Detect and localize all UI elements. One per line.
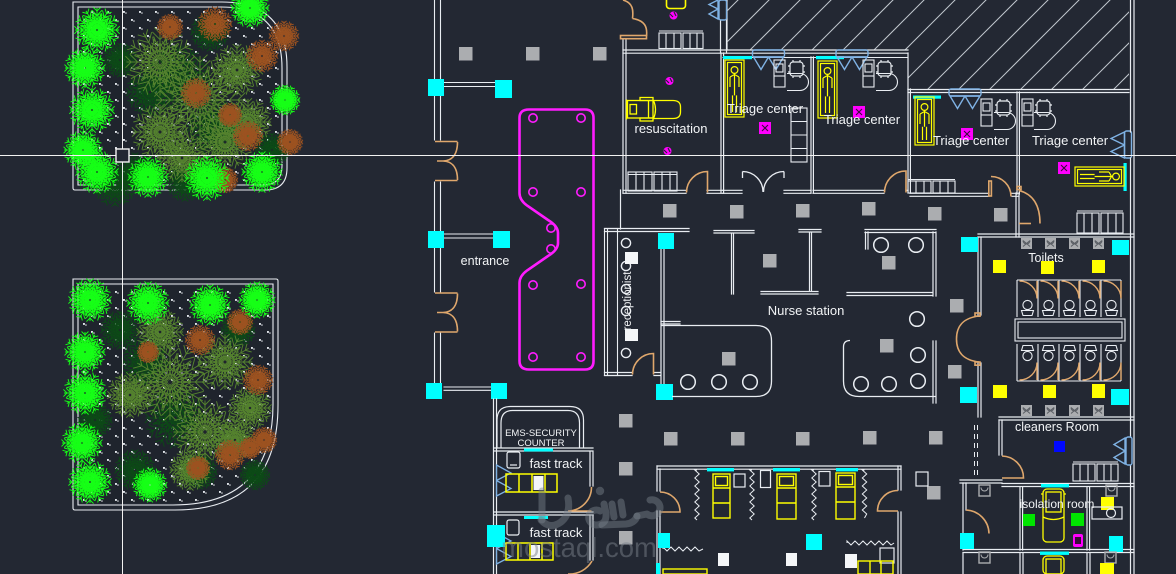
- resuscitation north door (tan): [621, 0, 647, 39]
- patient bed triage2: [818, 61, 837, 118]
- patient bed triage4 (horizontal): [1075, 167, 1124, 186]
- planting bed 1 border (top-left): [73, 2, 287, 190]
- corridor stub wall at reception: [661, 322, 680, 325]
- supply rack triage1: [791, 108, 807, 162]
- walkway column circles: [529, 114, 585, 361]
- nurse counter SE (rounded): [844, 341, 937, 397]
- resuscitation south door (tan): [687, 172, 708, 193]
- yellow squares toilets row1: [993, 260, 1006, 273]
- yellow fixture above north door: [667, 0, 686, 9]
- fast track A bench (yellow): [506, 474, 557, 492]
- entrance double door (lower): [435, 293, 458, 332]
- sink+wc fixtures triage3: [981, 99, 992, 126]
- blue swing door triage1 north: [753, 50, 785, 70]
- patient bed triage1: [725, 60, 744, 117]
- window triage3: [913, 96, 941, 99]
- yellow squares toilets row2: [993, 385, 1007, 398]
- sink+wc fixtures triage4: [1022, 99, 1033, 126]
- ward east door (tan): [878, 491, 899, 512]
- toilet stalls block 2: [1017, 344, 1121, 381]
- nurse station NE room walls: [847, 230, 936, 297]
- trees bed 1 brown: [157, 7, 303, 193]
- cleaners west wall + door: [999, 420, 1002, 455]
- trees bed 1 dark green: [93, 13, 289, 207]
- fast track A door (tan): [568, 487, 592, 511]
- blue swing door triage2 north: [836, 50, 868, 70]
- EMS security counter: [497, 407, 584, 449]
- magenta square triage3: [961, 128, 973, 140]
- svg-text:resuscitation: resuscitation: [635, 121, 708, 136]
- isolation ambulance (yellow): [1041, 489, 1066, 542]
- resuscitation south wall: [623, 190, 723, 193]
- nurse station chairs: [681, 238, 926, 392]
- ward cyan columns: [658, 533, 670, 548]
- svg-text:Triage center: Triage center: [933, 133, 1010, 148]
- tan door triage3 south: [989, 177, 1011, 197]
- lockers NE (x1077 y213): [1077, 211, 1123, 233]
- white double door triage1 south: [743, 172, 785, 193]
- toilets middle corridor: [1015, 319, 1125, 341]
- cyan columns toilets: [1112, 240, 1129, 255]
- expansion joint dashed line: [975, 425, 978, 477]
- sink+wc fixtures triage1: [774, 60, 785, 87]
- magenta point marker above building: [670, 12, 678, 20]
- gray cross fixtures isolation row: [979, 485, 1117, 563]
- nurse counter SW (rounded): [661, 326, 772, 397]
- entrance double door (upper): [435, 142, 458, 181]
- corridor wall x1016 below triage divider: [1016, 193, 1019, 237]
- svg-text:cleaners Room: cleaners Room: [1015, 420, 1099, 434]
- svg-text:entrance: entrance: [461, 254, 510, 268]
- trees bed 2 olive green: [107, 308, 271, 490]
- building north wall: [623, 50, 908, 53]
- window triage4 (vertical): [1124, 163, 1127, 191]
- wall tie lines between entrance columns: [444, 83, 495, 391]
- urinal fixtures row 2: [1021, 405, 1104, 416]
- trees bed 2 brown: [137, 309, 277, 480]
- curtain partition 1: [695, 470, 699, 520]
- lobby west wall going south: [494, 399, 497, 574]
- entrance west wall (double line): [435, 0, 441, 383]
- triage rooms 3-4 south wall: [910, 193, 1019, 196]
- reception door (tan): [633, 354, 654, 375]
- blue swing door east wall cleaners: [1114, 437, 1132, 465]
- crosshair horizontal line: [0, 155, 1176, 157]
- yellow square isolation: [1101, 497, 1114, 510]
- east wall (x1130) full height): [1131, 0, 1135, 574]
- lockers below triage3: [908, 180, 955, 194]
- tan door to corridor east of wall x1016: [1017, 187, 1040, 224]
- ward small cabinet east: [880, 548, 894, 563]
- blue door at canopy divider top: [709, 0, 727, 20]
- wc fixture isolation east: [1092, 507, 1122, 519]
- nurse station SE walls: [933, 341, 936, 403]
- ward west door (tan): [660, 492, 680, 512]
- svg-text:fast track: fast track: [530, 456, 583, 471]
- tan door triage2 south: [885, 171, 907, 193]
- reception white squares: [625, 252, 638, 264]
- toilets west double door (tan): [957, 313, 981, 365]
- isolation row north wall: [960, 480, 1134, 487]
- trees bed 2 bright green: [61, 278, 275, 503]
- roof hatch boundary walls: [726, 0, 728, 50]
- blue swing door triage3 north: [949, 89, 981, 109]
- ward inner zigzag wall east: [847, 541, 894, 545]
- fast track A window: [524, 449, 553, 452]
- svg-text:receptionist: receptionist: [622, 271, 634, 331]
- fast track B bench (yellow): [506, 543, 553, 560]
- svg-text:mostaql.com: mostaql.com: [501, 532, 657, 563]
- fast track A phone fixture: [507, 452, 520, 468]
- triage room 1 west wall: [721, 53, 724, 193]
- column cyan squares on entrance wall: [428, 79, 444, 96]
- ward white squares: [718, 553, 729, 566]
- magenta walkway outline: [520, 110, 594, 370]
- planting bed 2 groundcover dot pattern: [80, 286, 271, 503]
- canopy divider wall above triage1: [721, 20, 727, 53]
- cyan columns corridor west of toilets: [961, 237, 978, 252]
- diagonal hatch lines: [576, 0, 1176, 100]
- fast track B phone fixture: [507, 520, 519, 535]
- urinal fixtures row 1: [1021, 238, 1104, 249]
- reception counter: [605, 229, 618, 376]
- triage rooms 3-4 divider x1017: [1017, 92, 1019, 194]
- isolation row south wall: [963, 550, 1134, 553]
- ward east wall: [898, 466, 901, 574]
- walls below isolation: [963, 553, 1090, 574]
- sink+wc fixtures triage2: [863, 60, 874, 87]
- cabinets on north wall exterior: [659, 31, 703, 49]
- reception stools: [621, 238, 630, 357]
- magenta square triage1: [759, 122, 771, 134]
- svg-text:Triage center: Triage center: [824, 112, 901, 127]
- ward partial beds at bottom edge: [663, 561, 893, 574]
- ward west wall: [657, 466, 660, 574]
- north wall east segment: [908, 90, 1129, 93]
- ward bed head windows (cyan): [707, 468, 734, 471]
- patient bed triage3: [915, 97, 934, 145]
- ward bed 2: [777, 474, 796, 519]
- north wall step at x908: [907, 53, 909, 89]
- curtain partition 3: [812, 470, 816, 520]
- isolation room west wall: [1020, 487, 1023, 550]
- magenta square triage4: [1058, 162, 1070, 174]
- triage south wall segments: [723, 190, 908, 193]
- column cyan square lobby wall: [487, 525, 505, 547]
- ward bed 3: [836, 473, 855, 519]
- green squares isolation: [1023, 514, 1035, 526]
- blue square cleaners room: [1054, 441, 1065, 452]
- trees bed 1 bright green: [64, 0, 301, 201]
- reception room walls: [605, 190, 690, 385]
- svg-text:Triage center: Triage center: [1032, 133, 1109, 148]
- nurse station partition T1: [714, 231, 754, 295]
- magenta square triage2: [853, 106, 865, 118]
- ward bedside cabinets (white): [734, 471, 928, 488]
- blue swing door triage4 east (vertical): [1111, 131, 1132, 158]
- ward north wall: [657, 466, 901, 469]
- fast track B window: [524, 516, 548, 519]
- yellow square bottom right: [1100, 563, 1114, 574]
- cyan columns isolation row: [960, 533, 974, 549]
- cyan tick ward bottom left: [656, 563, 660, 574]
- mostaql watermark arabic logo: [541, 491, 660, 526]
- svg-text:Triage center: Triage center: [727, 101, 804, 116]
- planting bed 2 border (bottom-left): [73, 279, 278, 510]
- resuscitation ambulance (yellow): [627, 98, 681, 122]
- toilet stalls block 1: [1017, 280, 1121, 317]
- curtain partition 2: [750, 470, 754, 520]
- curtain partition 4: [862, 470, 866, 518]
- crosshair vertical line: [122, 0, 124, 574]
- window triage1: [723, 56, 752, 59]
- isolation area west wall: [963, 483, 966, 550]
- triage row1 east wall x908: [908, 89, 910, 193]
- fast track room A walls: [494, 448, 593, 515]
- inner north wall line of triage rooms: [723, 57, 908, 59]
- structural column gray squares: [459, 47, 1008, 545]
- triage divider wall x811: [811, 57, 813, 193]
- crosshair pickbox: [116, 149, 129, 162]
- magenta fixture isolation: [1073, 534, 1083, 547]
- blue door swing symbols on lobby wall: [497, 465, 512, 496]
- cyan columns at reception: [658, 233, 674, 249]
- ward bed 1: [713, 474, 730, 518]
- ward inner zigzag wall west: [663, 547, 703, 551]
- fast track B door (tan): [568, 561, 592, 574]
- trees bed 1 olive green: [125, 27, 271, 182]
- nurse station partition T2: [761, 230, 821, 295]
- planting bed 1 groundcover dot pattern: [80, 9, 280, 183]
- resuscitation west wall: [623, 39, 626, 193]
- window triage2: [816, 56, 844, 59]
- tan door isolation west: [966, 510, 989, 534]
- svg-text:isolation room: isolation room: [1020, 497, 1095, 511]
- isolation window cyan: [1041, 484, 1069, 487]
- trees bed 2 dark green: [78, 311, 270, 491]
- toilets north wall: [978, 234, 1134, 237]
- lockers cleaners room: [1073, 462, 1118, 481]
- isolation room east wall: [1087, 487, 1090, 550]
- magenta point markers resuscitation: [666, 77, 674, 85]
- toilets west wall: [978, 237, 981, 417]
- svg-text:COUNTER: COUNTER: [518, 438, 565, 449]
- room below isolation (partial): [1040, 552, 1069, 555]
- cabinets resuscitation south: [628, 172, 677, 191]
- cleaners room north wall: [999, 417, 1134, 420]
- svg-text:Nurse station: Nurse station: [768, 303, 845, 318]
- fast track room B walls: [590, 515, 593, 560]
